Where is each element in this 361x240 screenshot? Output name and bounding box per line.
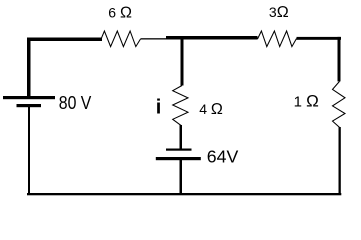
svg-text:64V: 64V <box>207 147 239 167</box>
svg-text:3Ω: 3Ω <box>269 4 289 21</box>
resistor R2 3Ω zigzag <box>258 31 297 47</box>
wire right vertical upper <box>338 37 341 82</box>
resistor R3 1Ω zigzag <box>333 81 346 127</box>
wire middle vertical upper <box>181 39 184 86</box>
wire 4Ω-to-64V <box>180 125 183 149</box>
wire bottom <box>27 193 341 195</box>
svg-text:1 Ω: 1 Ω <box>294 92 319 111</box>
wire left vertical lower <box>28 107 30 195</box>
svg-text:6 Ω: 6 Ω <box>108 5 132 22</box>
wire top-left segment <box>27 38 102 42</box>
wire 6Ω-to-node thin <box>141 38 167 39</box>
battery V2 64V long plate <box>156 157 201 160</box>
wire node-to-3Ω <box>166 36 258 40</box>
wire 64V-to-bottom <box>180 160 183 195</box>
wire 3Ω-to-corner <box>297 37 342 40</box>
svg-text:i: i <box>156 97 162 119</box>
svg-text:4 Ω: 4 Ω <box>199 101 223 118</box>
battery V1 80V long plate <box>3 96 55 99</box>
resistor R1 6Ω zigzag <box>101 31 141 47</box>
wire left vertical upper <box>27 38 31 97</box>
svg-text:80 V: 80 V <box>59 92 92 113</box>
resistor R4 4Ω zigzag <box>173 86 188 126</box>
wire right vertical lower <box>339 127 341 195</box>
battery V2 64V short plate <box>166 149 192 151</box>
battery V1 80V short plate <box>17 104 42 107</box>
